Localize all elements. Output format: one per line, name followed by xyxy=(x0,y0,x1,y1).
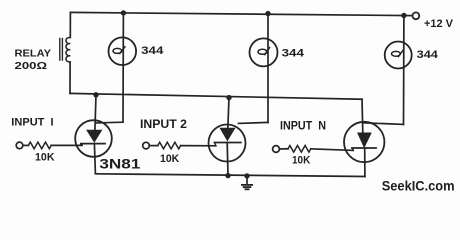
svg-text:10K: 10K xyxy=(35,151,55,163)
terminal: INPUT N xyxy=(273,146,280,153)
wire: Q3 cathode drop xyxy=(364,148,366,177)
svg-text:INPUT I: INPUT I xyxy=(11,117,53,129)
svg-text:200Ω: 200Ω xyxy=(15,61,48,72)
wire: lamp DS1 bend into Q1 anode xyxy=(97,121,124,124)
wire: lamp DS3 vertical drop xyxy=(403,16,405,125)
ground xyxy=(242,176,252,189)
wire: Q2 anode drop xyxy=(228,98,229,135)
svg-text:344: 344 xyxy=(141,45,164,57)
wire: Q3 anode drop from middle bus corner xyxy=(361,99,364,133)
wire: bottom ground bus xyxy=(96,174,365,177)
resistor R3 10K xyxy=(288,146,311,153)
SCR Q3 3N81 xyxy=(344,122,384,162)
svg-text:10K: 10K xyxy=(160,153,180,165)
relay K1 coil xyxy=(60,37,70,62)
wire: Q2 cathode drop xyxy=(226,143,229,176)
node: Q2 anode junction on middle bus xyxy=(226,95,231,100)
svg-text:INPUT 2: INPUT 2 xyxy=(140,117,187,131)
wire: Q1 cathode drop xyxy=(94,144,95,174)
node: lamp DS2 top junction xyxy=(265,11,270,16)
wire: R3 to Q3 gate xyxy=(311,149,353,151)
wire: top +12V supply bus xyxy=(71,12,413,15)
svg-text:344: 344 xyxy=(417,49,439,61)
svg-text:RELAY: RELAY xyxy=(15,49,52,60)
wire: lamp DS1 vertical drop xyxy=(122,13,124,122)
terminal: INPUT 1 xyxy=(16,142,23,149)
lamp DS1 xyxy=(109,37,137,65)
node: Q2 cathode junction on bottom bus xyxy=(225,173,230,178)
wire: lamp DS2 bend into Q2 anode xyxy=(239,122,269,123)
wire: relay branch lower segment xyxy=(69,62,71,93)
wire: lamp DS3 bend into Q3 anode xyxy=(363,123,404,125)
wire: input2 terminal lead xyxy=(149,145,158,147)
svg-text:344: 344 xyxy=(282,48,305,60)
svg-text:10K: 10K xyxy=(292,154,311,166)
resistor R2 10K xyxy=(158,142,181,149)
node: Q1 anode junction on middle bus xyxy=(93,92,98,97)
terminal: +12V open circle xyxy=(413,12,420,19)
wire: R1 to Q1 gate xyxy=(51,144,82,146)
wire: input1 terminal lead xyxy=(23,144,29,146)
SCR Q2 3N81 xyxy=(209,125,246,162)
wire: R2 to Q2 gate xyxy=(181,145,216,147)
svg-text:3N81: 3N81 xyxy=(99,156,140,172)
svg-text:SeekIC.com: SeekIC.com xyxy=(382,179,455,194)
svg-text:INPUT N: INPUT N xyxy=(280,118,326,132)
svg-text:+12 V: +12 V xyxy=(424,18,454,30)
terminal: INPUT 2 xyxy=(143,142,150,149)
lamp DS2 xyxy=(250,38,278,66)
wire: inputN terminal lead xyxy=(279,148,288,150)
SCR Q1 3N81 xyxy=(75,120,112,157)
node: lamp DS1 top junction xyxy=(121,10,126,15)
lamp DS3 xyxy=(385,42,412,69)
node: lamp DS3 top junction xyxy=(401,13,406,18)
node: ground tap junction xyxy=(244,173,249,178)
wire: relay branch upper segment xyxy=(69,12,71,37)
wire: middle anode bus xyxy=(70,93,362,99)
resistor R1 10K xyxy=(28,142,51,149)
wire: lamp DS2 vertical drop xyxy=(267,14,269,123)
wire: Q1 anode drop xyxy=(95,95,96,131)
